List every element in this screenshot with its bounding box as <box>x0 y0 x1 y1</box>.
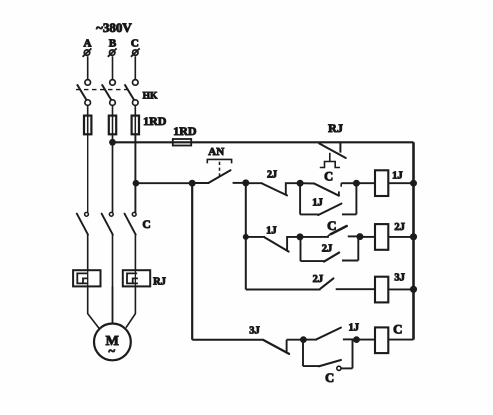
wire A RJ to motor <box>88 286 99 328</box>
relay contact 2J row1 <box>246 183 300 195</box>
wire C RJ to motor <box>126 286 135 327</box>
relay coil 1J <box>375 170 388 196</box>
wire top control bus <box>113 141 414 143</box>
svg-text:2J: 2J <box>394 222 405 233</box>
wire phase B down to contactor <box>112 134 114 212</box>
terminal A <box>83 48 92 56</box>
RJ contact stub <box>339 142 341 152</box>
wire C junction to left bus <box>136 182 192 184</box>
terminal C <box>131 48 140 56</box>
svg-text:C: C <box>393 322 402 337</box>
relay contact 1J self-hold branch <box>300 183 356 215</box>
wire C through fuse <box>134 116 136 135</box>
knife switch HK pole C <box>125 80 139 106</box>
wire coil C to right bus <box>388 339 413 341</box>
wire C contact to RJ <box>134 235 136 271</box>
wire B to motor <box>112 286 114 323</box>
svg-text:1RD: 1RD <box>173 124 197 138</box>
motor M <box>94 324 131 361</box>
svg-text:1RD: 1RD <box>143 114 167 128</box>
wire coil 3J to right bus <box>388 288 413 290</box>
wire row2 to coil <box>360 236 375 238</box>
relay contact 1J row4 <box>303 328 356 340</box>
wire B contact down <box>112 235 114 324</box>
svg-text:1J: 1J <box>312 198 323 209</box>
node row2 left bus tee <box>243 234 248 239</box>
svg-text:RJ: RJ <box>328 121 343 135</box>
knife switch HK pole A <box>77 80 90 106</box>
node B junction dot <box>110 139 116 145</box>
wire A contact to RJ <box>87 235 89 271</box>
node row1 left branch dot <box>297 180 303 186</box>
svg-text:C: C <box>131 38 139 50</box>
fuse 1RD phase C <box>132 116 139 135</box>
svg-text:C: C <box>142 219 150 231</box>
wire row3 from middle bus <box>246 289 321 291</box>
node right bus row3 dot <box>410 286 416 292</box>
svg-text:HK: HK <box>143 92 158 102</box>
contactor contact C self-hold branch <box>303 340 353 371</box>
svg-text:1J: 1J <box>266 226 277 237</box>
relay contact 1J row2 <box>246 237 300 252</box>
svg-text:C: C <box>324 169 333 183</box>
wire C switch to fuse <box>134 105 136 115</box>
contactor main contact A <box>77 212 89 234</box>
pushbutton AN <box>192 159 246 183</box>
wire row4 to coil <box>357 339 376 341</box>
svg-text:~: ~ <box>109 344 116 358</box>
svg-text:2J: 2J <box>313 274 324 285</box>
svg-text:A: A <box>84 38 92 50</box>
RJ reset actuator <box>320 153 340 168</box>
svg-text:2J: 2J <box>322 244 333 255</box>
svg-text:2J: 2J <box>267 169 277 180</box>
node row1 right branch dot <box>353 180 359 186</box>
svg-text:AN: AN <box>208 146 224 158</box>
node row2 left branch dot <box>297 234 303 240</box>
svg-text:1J: 1J <box>392 171 403 182</box>
node AN output dot <box>243 180 249 186</box>
contactor contact C row2 <box>300 226 360 237</box>
wire coil 2J to right bus <box>388 236 413 238</box>
node row4 right branch dot <box>354 337 360 343</box>
thermal relay RJ heater C <box>123 270 150 286</box>
svg-text:RJ: RJ <box>153 276 166 287</box>
svg-text:1J: 1J <box>348 322 359 333</box>
svg-text:3J: 3J <box>394 272 405 283</box>
node C junction dot <box>133 180 139 186</box>
terminal B <box>108 48 117 56</box>
node row2 right branch dot <box>357 234 363 240</box>
relay coil 3J <box>375 277 388 303</box>
node right bus row2 dot <box>410 234 416 240</box>
wire phase A down to contactor <box>87 134 89 212</box>
wire B through fuse <box>112 116 114 135</box>
relay contact 3J row4 <box>263 340 303 354</box>
contactor main contact B <box>102 212 114 234</box>
wire left bus vertical <box>191 183 193 340</box>
svg-text:C: C <box>325 371 334 385</box>
thermal relay RJ heater A <box>73 270 100 286</box>
wire coil 1J to right bus <box>388 182 413 184</box>
relay contact 2J self-hold branch <box>301 237 359 262</box>
fuse 1RD phase A <box>84 116 91 135</box>
node right bus row1 dot <box>411 180 417 186</box>
thermal relay RJ contact blade <box>319 143 346 158</box>
knife switch HK pole B <box>102 80 115 106</box>
svg-text:B: B <box>109 38 117 50</box>
node row4 left branch dot <box>301 337 307 343</box>
wire C terminal to switch <box>134 56 136 79</box>
wire A switch to fuse <box>87 105 89 115</box>
contactor main contact C <box>125 212 137 234</box>
wire A through fuse <box>87 116 89 135</box>
switch gang dashed link <box>76 89 130 91</box>
wire middle bus vertical <box>245 183 247 290</box>
relay coil 2J <box>375 224 388 250</box>
node left bus dot <box>189 180 195 186</box>
wire phase C down to contactor <box>134 134 136 212</box>
relay contact 2J row3 <box>320 278 375 289</box>
wire row1 to coil <box>356 182 375 184</box>
contactor coil C <box>375 327 388 353</box>
wire B switch to fuse <box>112 105 114 115</box>
wire B terminal to switch <box>112 56 114 79</box>
wire right bus vertical <box>412 142 415 339</box>
svg-text:~380V: ~380V <box>96 20 132 35</box>
wire A terminal to switch <box>87 56 89 79</box>
contactor contact C row1 <box>300 183 356 196</box>
svg-text:3J: 3J <box>249 325 260 336</box>
wire row4 from left bus <box>192 339 264 341</box>
fuse 1RD control <box>173 139 191 146</box>
fuse 1RD phase B <box>109 116 116 135</box>
